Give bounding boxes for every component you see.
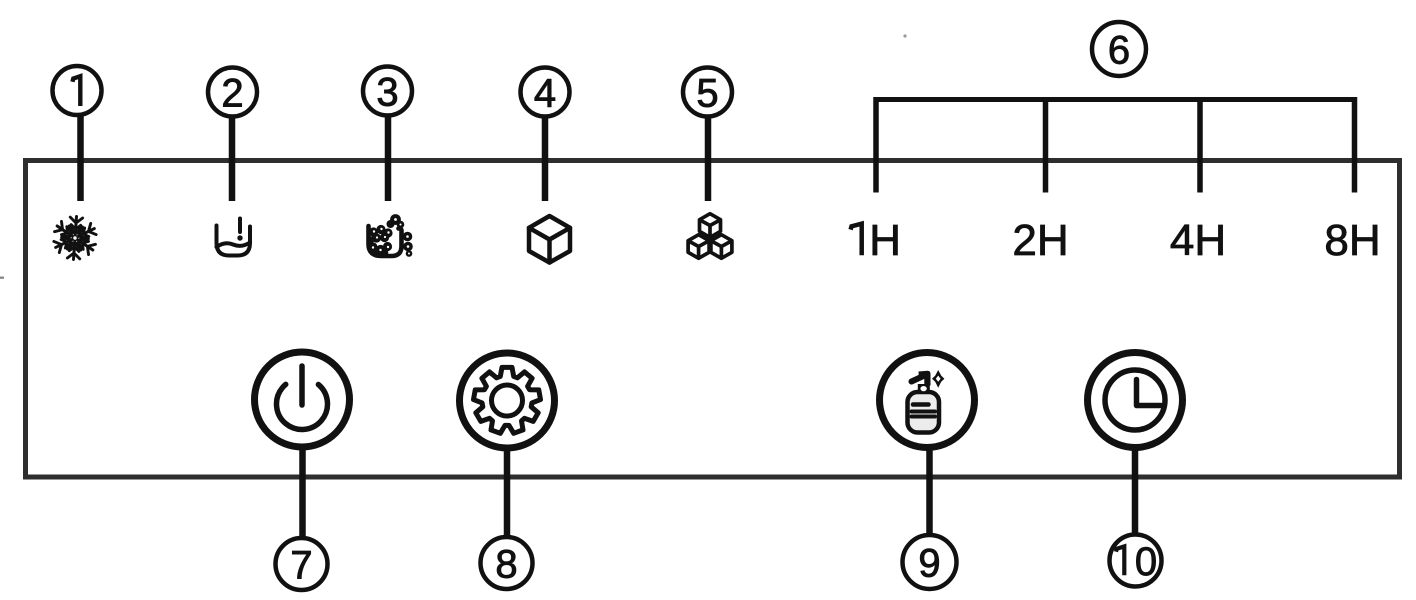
svg-text:8: 8 <box>495 543 517 587</box>
callout 9 <box>903 535 957 589</box>
bracket 6 tick 2H <box>1043 97 1049 193</box>
svg-text:4H: 4H <box>1170 216 1226 265</box>
leader line 7 <box>299 449 306 541</box>
panel outline <box>26 161 1400 478</box>
bracket 6 horizontal <box>874 97 1358 102</box>
leader line 8 <box>504 449 511 539</box>
svg-text:6: 6 <box>1108 29 1130 73</box>
leader line 9 <box>926 449 933 537</box>
timer clock button (10) <box>1088 353 1183 448</box>
power button (7) <box>255 352 350 447</box>
bracket 6 tick 8H <box>1352 97 1358 193</box>
bracket 6 tick 1H <box>873 97 879 193</box>
ice cube icon (4) <box>529 216 570 263</box>
callout 6 <box>1092 22 1146 76</box>
speck artifact top <box>903 34 906 37</box>
callout 5 <box>683 68 732 117</box>
callout 3 <box>363 67 412 116</box>
callout 10 <box>1110 535 1162 587</box>
leader line 2 <box>229 112 236 201</box>
callout 7 <box>276 538 328 590</box>
svg-text:H: H <box>869 216 901 265</box>
svg-text:9: 9 <box>918 542 940 586</box>
leader line 5 <box>705 112 712 201</box>
leader line 3 <box>385 112 392 201</box>
svg-text:2H: 2H <box>1012 216 1068 265</box>
svg-text:7: 7 <box>290 544 312 588</box>
callout 2 <box>208 68 257 117</box>
svg-text:5: 5 <box>696 72 718 116</box>
callout 8 <box>481 537 533 589</box>
speck artifact left edge <box>0 277 4 279</box>
leader line 1 <box>77 112 84 201</box>
label 1H <box>851 216 901 265</box>
leader line 10 <box>1132 449 1139 536</box>
svg-text:8H: 8H <box>1324 216 1380 265</box>
svg-text:2: 2 <box>221 72 243 116</box>
svg-text:3: 3 <box>376 71 398 115</box>
bracket 6 tick 4H <box>1197 97 1203 193</box>
callout 1 <box>53 66 102 115</box>
callout 4 <box>521 68 570 117</box>
self-clean cup icon (3) <box>367 214 413 257</box>
settings gear button (8) <box>460 353 555 448</box>
clean/spray button (9) <box>880 353 975 448</box>
leader line 4 <box>542 112 549 201</box>
svg-text:4: 4 <box>534 72 556 116</box>
svg-text:0: 0 <box>1135 540 1157 584</box>
water level icon (2) <box>217 219 251 256</box>
